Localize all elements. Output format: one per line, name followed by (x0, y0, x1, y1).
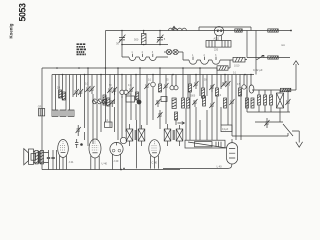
junction dots top (121, 30, 161, 46)
trimmer Tg2 (264, 118, 269, 128)
junction dot bus (120, 169, 122, 171)
resistor Rc2 (189, 84, 192, 92)
speaker wires (34, 152, 49, 163)
box sub (105, 120, 113, 127)
switch diagonal low (188, 142, 227, 148)
big dot (137, 100, 142, 105)
tube T1 (58, 140, 69, 158)
trimmer Ta3 (85, 86, 90, 94)
resistor Ra2 (62, 92, 65, 100)
resistor Rc3 (202, 88, 205, 98)
pins T4 (151, 156, 159, 169)
choke coil X (277, 93, 284, 108)
wire line112 (247, 111, 290, 113)
wire verticals mid (140, 68, 251, 129)
trimmer Ta1 (74, 89, 79, 97)
bottom bus (42, 169, 180, 171)
bottom bus 2 (163, 164, 232, 168)
trimmer Tf2 (209, 102, 214, 110)
cap between tubes (75, 139, 83, 148)
trimmer Tb1 (107, 87, 112, 95)
right block resistor Rg2 (264, 95, 267, 105)
riser T5 top (232, 133, 288, 143)
junction dots buses (56, 67, 252, 75)
lamp pair (164, 49, 183, 60)
coil L3 scalloped (183, 54, 230, 64)
resistor Rd1 (239, 88, 242, 96)
trimmer Ta4 (89, 86, 94, 94)
pins T2 (91, 156, 99, 170)
B+ arrow up (293, 61, 299, 90)
svg-text:Koenig: Koenig (9, 23, 14, 38)
rectifier tube AZ11 (214, 27, 224, 41)
resistor Rb1 (136, 92, 139, 100)
wire small verticals (49, 150, 57, 170)
coil Le1 (172, 98, 176, 109)
resistor mid1 (175, 112, 178, 120)
trimmer Tc2 (163, 83, 168, 91)
wire line57 (247, 57, 290, 59)
trimmer C2 (157, 31, 166, 45)
resistor R6 on busA (217, 60, 230, 70)
circle c1 (151, 82, 156, 87)
antenna arrow (172, 26, 177, 30)
trimmer Ta2 (78, 89, 83, 97)
terminal dot (290, 30, 292, 32)
circle top T3 (120, 137, 126, 143)
ground arrow (296, 142, 303, 147)
resistor Re2 (107, 98, 110, 106)
trimmer C1 (116, 31, 125, 46)
power box bottom (185, 140, 225, 148)
box row2 b (60, 110, 66, 116)
pins T3 (112, 154, 120, 169)
power transformer box (206, 41, 231, 52)
wire bundle left (52, 75, 77, 111)
wire over rectifier (199, 27, 251, 31)
trimmer Tf1 (192, 99, 197, 107)
wire verticals lower-left (85, 94, 137, 146)
box row2 c (68, 110, 74, 116)
right block resistor Rg3 (270, 95, 273, 105)
circle pair b (120, 90, 128, 98)
svg-text:220: 220 (214, 48, 219, 51)
right block resistor Rg1 (258, 95, 261, 105)
resistor Rf3 (203, 96, 206, 106)
coil L2 scalloped (122, 45, 168, 61)
stamp text block (77, 44, 87, 54)
main bus B (52, 74, 254, 76)
wire line90 (252, 89, 296, 91)
box 005uF (126, 94, 135, 102)
resistor R4 (280, 88, 290, 91)
trimmer pair d (221, 81, 230, 87)
resistor Ra1 (59, 90, 62, 98)
wire riser x256 (255, 31, 257, 75)
resistor Rf1 (182, 98, 185, 108)
resistor Rf2 (187, 98, 190, 108)
output transformer (35, 151, 44, 164)
trimmer Tf3 (229, 99, 234, 107)
svg-text:0,02 µF: 0,02 µF (253, 68, 263, 72)
arrow small left (178, 122, 185, 125)
wire left riser (105, 31, 107, 69)
cap box 01uF (221, 125, 232, 132)
svg-text:U 40: U 40 (102, 162, 108, 166)
svg-text:GR: GR (38, 106, 42, 108)
resistor Rc1 (159, 84, 162, 92)
wire line122 (255, 121, 283, 123)
pins T1 (59, 156, 66, 170)
svg-text:J 40: J 40 (113, 159, 118, 163)
trimmer Te1 (110, 99, 115, 107)
trimmer Te2 (155, 99, 160, 107)
trimmer lower-left (76, 125, 81, 136)
trimmer mid1 (157, 110, 162, 120)
resistor Rf5 (246, 98, 249, 108)
wire verticals lower-mid (137, 86, 242, 168)
lamp ellipse (249, 85, 254, 93)
tube T4 (149, 140, 160, 158)
switch diagonal (283, 124, 293, 136)
svg-text:C 40: C 40 (152, 161, 158, 165)
trimmer Tb3 (128, 87, 133, 95)
svg-text:0,05: 0,05 (126, 94, 131, 96)
padder circles (92, 99, 106, 104)
IF transformer 2 (164, 124, 183, 146)
ground arm (292, 131, 299, 143)
IF transformer 1 (126, 124, 145, 146)
circle pair c (170, 86, 178, 90)
trimmer Tb2 (112, 87, 117, 95)
svg-text:J 41: J 41 (69, 160, 74, 164)
speaker (24, 149, 36, 165)
boxes row GR (38, 106, 45, 116)
svg-text:0,1µF: 0,1µF (222, 128, 229, 131)
tube T3 (110, 142, 123, 155)
fuse arrow (257, 55, 264, 59)
trimmer Tc3 (193, 81, 198, 89)
resistor R1 (235, 29, 242, 32)
svg-text:1010: 1010 (234, 64, 240, 67)
tube T2 (89, 139, 101, 158)
resistor R2 (268, 29, 278, 32)
box row2 a (52, 110, 58, 116)
svg-text:mA: mA (281, 43, 285, 47)
resistor Rc4 (216, 88, 219, 96)
trimmer Tc4 (209, 84, 214, 92)
resistor R3 (268, 56, 278, 59)
circle d1 (242, 85, 246, 89)
resistor R5 (230, 57, 247, 67)
box e (161, 97, 167, 102)
coil L1 (134, 31, 146, 45)
wire top bus (106, 30, 292, 32)
wire verticals mid-left (81, 68, 137, 140)
trimmer Tc1 (144, 83, 149, 91)
svg-text:L 40: L 40 (217, 164, 223, 168)
wire right columns (241, 90, 288, 133)
resistor Rf6 (251, 98, 254, 108)
pins AZ11 (217, 35, 222, 40)
main bus A (42, 67, 217, 69)
trimmer Tg1 (285, 99, 290, 107)
svg-text:5000: 5000 (190, 96, 196, 98)
junction dot bus2 (123, 168, 125, 170)
left rail (41, 68, 43, 170)
svg-text:500: 500 (134, 37, 139, 41)
caps small pair (47, 157, 55, 159)
wire riser x247 (246, 31, 248, 58)
tube T5 output (227, 143, 238, 164)
coil L4 on bus (169, 28, 187, 30)
resistor Re1 (103, 95, 106, 105)
svg-text:2M: 2M (57, 88, 60, 90)
resistor Rf4 (224, 98, 227, 108)
svg-text:5053: 5053 (18, 3, 28, 21)
wire bus2 (122, 44, 168, 46)
